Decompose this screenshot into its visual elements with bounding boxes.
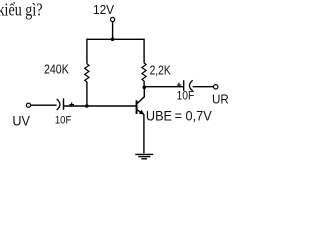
svg-text:UR: UR — [212, 92, 229, 107]
svg-text:UV: UV — [12, 114, 30, 130]
svg-text:12V: 12V — [93, 3, 115, 17]
svg-text:kiểu gì?: kiểu gì? — [0, 0, 43, 19]
svg-text:10F: 10F — [55, 115, 72, 127]
svg-text:2,2K: 2,2K — [150, 64, 172, 78]
svg-text:240K: 240K — [44, 62, 69, 77]
svg-text:10F: 10F — [177, 90, 195, 102]
svg-text:UBE = 0,7V: UBE = 0,7V — [146, 108, 212, 124]
